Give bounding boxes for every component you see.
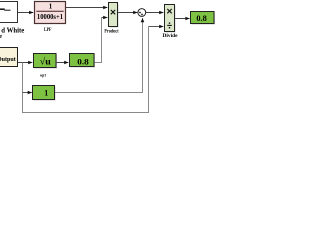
- block: display 0.8 top right: [192, 13, 216, 25]
- wire: riser into Product input 2: [102, 17, 108, 19]
- wire: Output branch down, along bottom, up to Divide input 2: [23, 27, 149, 113]
- wire: 1 block right to Sum bottom riser: [55, 20, 143, 93]
- wire: Sum to Divide input 1: [146, 12, 164, 14]
- wire: Product to Sum: [118, 12, 138, 14]
- block: Output (cut off at left): [0, 48, 18, 67]
- block: LPF transfer function: [35, 2, 66, 24]
- svg-text:Output: Output: [0, 57, 16, 63]
- block: sqrt: [35, 55, 58, 69]
- block: display 0.8 middle: [71, 55, 96, 68]
- svg-text:d White: d White: [1, 28, 24, 35]
- svg-text:√u: √u: [40, 57, 52, 68]
- svg-text:0.8: 0.8: [196, 14, 206, 23]
- block: constant 1: [34, 87, 56, 101]
- wire: 0.8 display right edge to riser corner: [94, 18, 102, 63]
- block: Band-Limited White Noise (cut off at left): [0, 2, 18, 23]
- wire: Output block to sqrt: [18, 62, 33, 64]
- svg-text:se: se: [0, 33, 2, 40]
- wire: riser arrow into Sum bottom: [142, 18, 144, 21]
- wire: noise to LPF: [18, 12, 34, 14]
- svg-text:1: 1: [44, 89, 48, 98]
- wire: sqrt to 0.8 display: [56, 62, 68, 64]
- block: Product: [110, 4, 119, 28]
- svg-text:LPF: LPF: [44, 28, 52, 33]
- svg-text:Divide: Divide: [163, 33, 179, 39]
- svg-text:10000s+1: 10000s+1: [37, 13, 64, 21]
- wire: branch into constant 1 block: [23, 92, 32, 94]
- wire: Divide to top-right display: [175, 18, 190, 20]
- svg-text:0.8: 0.8: [77, 57, 89, 66]
- svg-text:1: 1: [49, 3, 53, 11]
- block: Sum: [138, 9, 146, 17]
- wire: LPF to Product input 1: [66, 7, 108, 9]
- svg-text:Product: Product: [104, 29, 118, 35]
- wire: riser into Divide input 2: [149, 26, 164, 28]
- svg-text:sqrt: sqrt: [40, 73, 46, 78]
- block: Divide: [166, 6, 176, 33]
